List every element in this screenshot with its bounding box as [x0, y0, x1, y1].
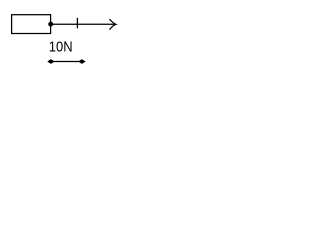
svg-text:10N: 10N	[49, 39, 73, 55]
dimension line	[51, 61, 82, 63]
right diamond end	[78, 59, 85, 64]
arrowhead	[110, 19, 116, 29]
node dot on right edge of block	[48, 22, 53, 27]
left diamond end	[47, 59, 54, 64]
block (rectangle)	[12, 15, 51, 34]
force line	[51, 23, 115, 25]
tick mark on force line	[76, 18, 78, 29]
